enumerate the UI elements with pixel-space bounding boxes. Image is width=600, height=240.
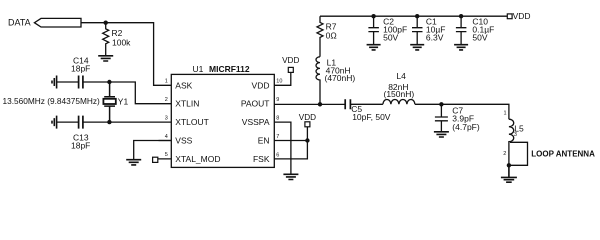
svg-text:LOOP ANTENNA: LOOP ANTENNA	[531, 149, 595, 158]
svg-text:DATA: DATA	[8, 18, 31, 28]
svg-text:18pF: 18pF	[71, 64, 90, 74]
svg-text:(4.7pF): (4.7pF)	[452, 122, 480, 132]
svg-text:7: 7	[276, 134, 279, 140]
svg-text:MICRF112: MICRF112	[209, 64, 250, 74]
svg-text:2: 2	[503, 151, 506, 157]
svg-text:10pF, 50V: 10pF, 50V	[352, 112, 391, 122]
svg-text:18pF: 18pF	[71, 141, 90, 151]
svg-text:6.3V: 6.3V	[426, 32, 444, 42]
svg-text:(150nH): (150nH)	[384, 89, 415, 99]
svg-text:VDD: VDD	[513, 11, 531, 21]
svg-text:VSS: VSS	[175, 135, 192, 145]
svg-text:Y1: Y1	[118, 97, 129, 107]
svg-text:50V: 50V	[472, 32, 487, 42]
svg-text:(470nH): (470nH)	[325, 73, 356, 83]
svg-text:R2: R2	[112, 28, 123, 38]
svg-text:4: 4	[165, 134, 168, 140]
svg-text:VDD: VDD	[282, 56, 299, 65]
svg-text:13.560MHz (9.84375MHz): 13.560MHz (9.84375MHz)	[3, 96, 101, 106]
svg-text:50V: 50V	[383, 32, 398, 42]
svg-text:0Ω: 0Ω	[326, 31, 337, 41]
svg-text:3: 3	[165, 115, 168, 121]
svg-text:100k: 100k	[112, 38, 131, 48]
svg-text:PAOUT: PAOUT	[241, 99, 270, 109]
svg-text:2: 2	[165, 97, 168, 103]
svg-text:1: 1	[504, 110, 507, 116]
svg-text:XTAL_MOD: XTAL_MOD	[175, 154, 220, 164]
svg-text:6: 6	[276, 152, 279, 158]
svg-text:ASK: ASK	[175, 80, 192, 90]
svg-text:5: 5	[165, 152, 168, 158]
svg-text:XTLOUT: XTLOUT	[175, 117, 209, 127]
svg-text:10: 10	[276, 78, 282, 84]
svg-text:VDD: VDD	[299, 113, 316, 122]
svg-text:1: 1	[165, 79, 168, 85]
svg-text:U1: U1	[193, 64, 204, 74]
svg-text:8: 8	[276, 116, 279, 122]
svg-text:EN: EN	[258, 135, 270, 145]
svg-text:FSK: FSK	[253, 154, 270, 164]
svg-text:L4: L4	[396, 71, 406, 81]
svg-text:3: 3	[514, 132, 517, 138]
svg-text:VSSPA: VSSPA	[242, 117, 270, 127]
svg-text:9: 9	[276, 97, 279, 103]
svg-text:VDD: VDD	[252, 80, 270, 90]
svg-text:XTLIN: XTLIN	[175, 99, 199, 109]
